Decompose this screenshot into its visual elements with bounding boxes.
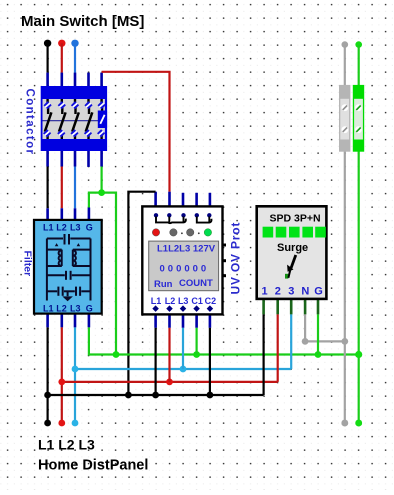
neutral busbar gray bbox=[339, 85, 350, 152]
wire red filter L2 to distpanel bbox=[60, 313, 63, 423]
svg-text:L2: L2 bbox=[165, 296, 176, 306]
svg-text:G: G bbox=[86, 304, 93, 314]
wire black UV pin5 to bus bbox=[209, 314, 212, 395]
svg-text:N: N bbox=[301, 285, 309, 297]
svg-text:L1: L1 bbox=[43, 223, 54, 233]
label Main Switch [MS] bbox=[21, 13, 144, 30]
wire L3 blue MS to contactor bbox=[71, 40, 78, 87]
svg-text:L2: L2 bbox=[56, 304, 67, 314]
wire black UV pin1 to bus bbox=[154, 314, 157, 395]
UV OV protector U1 bbox=[142, 206, 242, 314]
svg-text:C2: C2 bbox=[205, 296, 217, 306]
wire L1 black MS to contactor bbox=[44, 40, 51, 87]
wire cyan filter L3 to distpanel bbox=[74, 313, 77, 423]
wire green SPD pin G to ground bus bbox=[317, 299, 320, 355]
svg-text:L1: L1 bbox=[43, 304, 54, 314]
wire L1 black contactor to filter bbox=[46, 151, 49, 221]
wire red SPD pin2 to bus bbox=[276, 299, 279, 382]
wire green UV pin4 to bus bbox=[195, 314, 198, 355]
wire red contactor pin5 to UV pin L2 bbox=[102, 72, 170, 207]
svg-text:3: 3 bbox=[288, 285, 294, 297]
black bus bbox=[44, 392, 263, 399]
SPD surge protector bbox=[257, 206, 327, 299]
stub UV pin3 top bbox=[182, 193, 185, 207]
stub UV pin4 top bbox=[195, 193, 198, 207]
svg-text:SPD 3P+N: SPD 3P+N bbox=[270, 212, 321, 224]
ground busbar green bbox=[353, 85, 364, 152]
wire gray neutral busbar vertical bbox=[341, 41, 348, 426]
svg-text:L3: L3 bbox=[70, 304, 81, 314]
endpoint node L3 cyan bbox=[72, 420, 79, 427]
wire black filter L1 to distpanel bbox=[46, 313, 49, 423]
stub UV pin5 top bbox=[209, 193, 212, 207]
wire black UV pin L1 to bus bbox=[128, 192, 155, 395]
svg-text:Run: Run bbox=[154, 279, 173, 290]
svg-text:L3: L3 bbox=[178, 296, 189, 306]
label Home DistPanel bbox=[38, 457, 148, 473]
svg-text:L1 L2 L3: L1 L2 L3 bbox=[38, 437, 95, 453]
endpoint node ground green bbox=[355, 420, 362, 427]
svg-text:G: G bbox=[86, 223, 93, 233]
filter FL1 bbox=[22, 220, 102, 314]
svg-text:2: 2 bbox=[275, 285, 281, 297]
wire cyan UV pin3 to bus bbox=[182, 314, 185, 369]
stub contactor pin4 top bbox=[87, 73, 90, 87]
endpoint node L1 black bbox=[44, 420, 51, 427]
svg-text:Filter: Filter bbox=[22, 251, 34, 277]
svg-text:L1L2L3 127V: L1L2L3 127V bbox=[157, 244, 216, 255]
svg-text:Main Switch [MS]: Main Switch [MS] bbox=[21, 13, 144, 30]
svg-text:000000: 000000 bbox=[160, 264, 210, 275]
wire red UV pin2 to bus bbox=[168, 314, 171, 382]
svg-text:L3: L3 bbox=[70, 223, 81, 233]
svg-text:Contactor: Contactor bbox=[24, 89, 36, 156]
label L1 L2 L3 bbox=[38, 437, 95, 453]
cyan bus bbox=[72, 366, 292, 373]
wire L3 blue contactor to filter bbox=[74, 151, 77, 221]
contactor K1 bbox=[24, 86, 108, 155]
green bus bbox=[113, 351, 359, 358]
red bus bbox=[58, 379, 277, 386]
wire L2 red MS to contactor bbox=[58, 40, 65, 87]
wire cyan SPD pin3 to bus bbox=[290, 299, 293, 370]
stub contactor pin4 bottom bbox=[87, 151, 90, 167]
endpoint node neutral gray bbox=[341, 420, 348, 427]
svg-text:Home DistPanel: Home DistPanel bbox=[38, 457, 148, 473]
wire green filter G to ground bus bbox=[89, 313, 116, 354]
svg-text:L1: L1 bbox=[151, 296, 162, 306]
svg-text:UV OV Prot: UV OV Prot bbox=[229, 222, 243, 295]
wire black SPD pin1 to bus bbox=[262, 299, 265, 396]
endpoint node L2 red bbox=[58, 420, 65, 427]
wire L2 red contactor to filter bbox=[60, 151, 63, 221]
svg-text:L2: L2 bbox=[56, 223, 67, 233]
svg-text:G: G bbox=[314, 285, 323, 297]
wire green contactor pin5 to filter G and ground bus bbox=[89, 151, 116, 355]
wire green ground busbar vertical bbox=[355, 41, 362, 426]
svg-text:C1: C1 bbox=[191, 296, 203, 306]
svg-text:1: 1 bbox=[262, 285, 268, 297]
wire gray SPD pin N to neutral bar bbox=[302, 299, 348, 345]
svg-text:COUNT: COUNT bbox=[179, 278, 213, 289]
svg-text:Surge: Surge bbox=[277, 242, 308, 254]
